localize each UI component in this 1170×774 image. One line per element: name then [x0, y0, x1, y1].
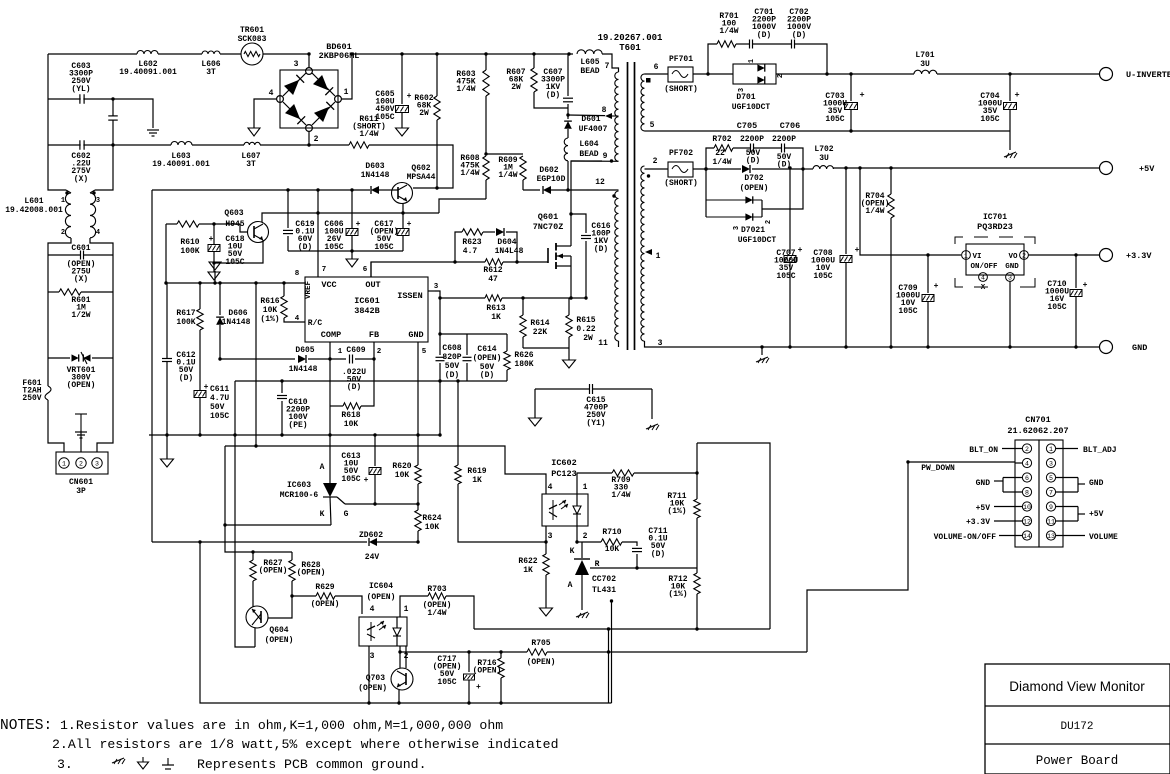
inductor L603: [171, 142, 192, 146]
svg-text:(D): (D): [746, 157, 760, 166]
svg-text:IC603: IC603: [287, 481, 311, 490]
svg-text:BEAD: BEAD: [579, 150, 598, 159]
svg-text:C706: C706: [780, 121, 800, 131]
svg-text:L701: L701: [915, 51, 934, 60]
ground: [351, 251, 353, 259]
svg-text:IC601: IC601: [354, 296, 380, 306]
svg-text:24V: 24V: [365, 553, 380, 562]
svg-text:R626: R626: [514, 351, 533, 360]
wire pin8 VREF: [167, 282, 305, 284]
svg-text:2200P: 2200P: [740, 135, 764, 144]
wire R601 to varistor: [47, 292, 49, 358]
svg-text:VOLUME-ON/OFF: VOLUME-ON/OFF: [934, 533, 997, 542]
wire gnd long line: [235, 380, 507, 382]
svg-text:(OPEN): (OPEN): [527, 658, 556, 667]
ground: [396, 128, 409, 136]
svg-text:+3.3V: +3.3V: [966, 518, 990, 527]
transformer T601 primary winding lower: [615, 191, 619, 341]
svg-text:1/2W: 1/2W: [71, 311, 90, 320]
wire C601 rails: [47, 252, 49, 292]
svg-text:UGF10DCT: UGF10DCT: [738, 236, 777, 245]
svg-text:D606: D606: [228, 309, 247, 318]
connector CN601: [56, 452, 108, 474]
svg-text:R624: R624: [422, 514, 441, 523]
wire left rails: [48, 54, 66, 190]
svg-text:U-INVERTER: U-INVERTER: [1126, 70, 1170, 80]
wire Q601 drain to pin9: [571, 161, 602, 246]
wire pin3 bottom: [645, 341, 656, 347]
svg-text:BLT_ON: BLT_ON: [969, 446, 998, 455]
svg-text:2W: 2W: [419, 109, 429, 118]
svg-text:D603: D603: [365, 162, 384, 171]
svg-text:R615: R615: [576, 316, 595, 325]
svg-text:L604: L604: [579, 140, 598, 149]
svg-text:G: G: [344, 510, 349, 519]
svg-text:1: 1: [404, 605, 409, 614]
wire Q703: [398, 690, 400, 703]
svg-text:3842B: 3842B: [354, 306, 380, 316]
svg-text:VI: VI: [972, 253, 981, 261]
wire PW_DOWN to pin4: [1015, 462, 1022, 464]
svg-text:1/4W: 1/4W: [498, 171, 517, 180]
wire bridge pin4: [254, 99, 277, 128]
svg-text:105C: 105C: [1047, 303, 1066, 312]
wire pin6 OUT: [370, 262, 372, 277]
svg-text:1/4W: 1/4W: [865, 207, 884, 216]
wire pin1 pin2: [329, 342, 331, 359]
wire R703 line to pwdown riser: [474, 628, 770, 630]
wire R705 riser: [807, 462, 908, 652]
svg-text:3T: 3T: [206, 68, 216, 77]
svg-text:2.All resistors are 1/8 watt,5: 2.All resistors are 1/8 watt,5% except w…: [52, 737, 558, 752]
svg-text:1: 1: [344, 88, 349, 97]
svg-text:180K: 180K: [514, 360, 533, 369]
svg-text:3: 3: [96, 197, 100, 205]
svg-text:3: 3: [733, 226, 741, 230]
svg-text:1K: 1K: [491, 313, 501, 322]
svg-text:3T: 3T: [246, 160, 256, 169]
svg-text:3: 3: [294, 60, 299, 69]
wire TL431 anode: [581, 575, 583, 610]
svg-text:L702: L702: [814, 145, 833, 154]
svg-text:PF701: PF701: [669, 55, 693, 64]
svg-text:ISSEN: ISSEN: [397, 291, 423, 301]
svg-text:1/4W: 1/4W: [359, 130, 378, 139]
svg-text:GND: GND: [408, 330, 423, 340]
svg-text:R703: R703: [427, 585, 446, 594]
svg-text:10K: 10K: [425, 523, 440, 532]
svg-text:1: 1: [338, 348, 343, 356]
svg-text:6: 6: [363, 266, 368, 274]
svg-text:+: +: [798, 246, 803, 255]
svg-text:105C: 105C: [898, 307, 917, 316]
svg-text:C611: C611: [210, 385, 229, 394]
svg-text:5: 5: [422, 348, 427, 356]
svg-text:CC702: CC702: [592, 575, 616, 584]
inductor L607: [244, 142, 260, 145]
ground: [761, 347, 763, 355]
wire top rail to transformer: [402, 53, 573, 55]
svg-text:Q703: Q703: [366, 674, 385, 683]
svg-text:(D): (D): [445, 371, 459, 380]
svg-text:3: 3: [1049, 461, 1053, 468]
svg-text:100K: 100K: [180, 247, 199, 256]
svg-text:Q602: Q602: [411, 164, 430, 173]
svg-text:ON/OFF: ON/OFF: [970, 263, 998, 271]
wire Q603 collector: [262, 213, 439, 222]
svg-text:8: 8: [295, 270, 300, 278]
diode pair D7021: [705, 169, 707, 217]
resistor R623 and diode D604 snubber branch: [455, 232, 462, 262]
svg-text:+: +: [859, 90, 864, 100]
wire pin8: [568, 114, 605, 117]
wire start rail: [151, 190, 153, 542]
svg-text:+5V: +5V: [1139, 164, 1155, 174]
svg-text:3.: 3.: [57, 757, 73, 772]
svg-text:C614: C614: [477, 345, 496, 354]
svg-text:7NC70Z: 7NC70Z: [533, 222, 564, 232]
svg-text:1: 1: [62, 461, 66, 468]
svg-text:1/4W: 1/4W: [611, 491, 630, 500]
svg-text:R620: R620: [392, 462, 411, 471]
wire cap bottom rail: [288, 250, 403, 252]
wire IC701 pin3 gnd: [1009, 281, 1011, 347]
svg-text:47: 47: [488, 275, 498, 284]
svg-text:4: 4: [96, 229, 100, 237]
svg-text:CN601: CN601: [69, 478, 93, 487]
svg-text:4: 4: [981, 275, 985, 282]
ground: [529, 418, 542, 426]
svg-text:GND: GND: [1132, 343, 1147, 353]
svg-text:6: 6: [654, 63, 659, 72]
svg-text:ZD602: ZD602: [359, 531, 383, 540]
svg-text:105C: 105C: [980, 115, 999, 124]
svg-text:14: 14: [1023, 533, 1031, 540]
svg-text:R/C: R/C: [308, 319, 323, 328]
wire vref rail down: [166, 283, 168, 355]
transformer T601 primary winding upper: [615, 72, 619, 161]
svg-text:(OPEN): (OPEN): [297, 569, 326, 578]
svg-text:(OPEN): (OPEN): [265, 636, 294, 645]
svg-text:+: +: [1014, 90, 1019, 100]
svg-text:(OPEN): (OPEN): [311, 600, 340, 609]
capacitor C614: [440, 333, 507, 335]
svg-text:PQ3RD23: PQ3RD23: [977, 222, 1013, 232]
svg-text:Q604: Q604: [269, 626, 288, 635]
svg-text:DU172: DU172: [1060, 721, 1093, 733]
svg-text:D701: D701: [736, 93, 755, 102]
wire loop verticals: [611, 601, 613, 703]
svg-text:NOTES:: NOTES:: [0, 718, 52, 734]
svg-text:1/4W: 1/4W: [460, 169, 479, 178]
svg-text:(OPEN): (OPEN): [358, 684, 387, 693]
svg-text:(D): (D): [546, 91, 560, 100]
svg-text:+3.3V: +3.3V: [1126, 251, 1152, 261]
svg-text:1/4W: 1/4W: [719, 27, 738, 36]
svg-text:3: 3: [370, 652, 375, 661]
svg-text:22K: 22K: [533, 328, 548, 337]
svg-text:4: 4: [370, 605, 375, 614]
svg-text:105C: 105C: [776, 272, 795, 281]
wire bridge pin1 to rail: [341, 54, 352, 99]
svg-text:VCC: VCC: [321, 280, 336, 290]
svg-text:1/4W: 1/4W: [456, 85, 475, 94]
svg-text:+: +: [934, 282, 939, 291]
svg-text:1.Resistor values are in ohm,K: 1.Resistor values are in ohm,K=1,000 ohm…: [60, 718, 503, 733]
svg-text:MPSA44: MPSA44: [407, 173, 436, 182]
svg-text:1/4W: 1/4W: [427, 609, 446, 618]
svg-text:R622: R622: [518, 557, 537, 566]
ground: [147, 129, 159, 131]
ground: [112, 758, 124, 763]
svg-text:105C: 105C: [210, 412, 229, 421]
svg-text:(D): (D): [347, 383, 361, 392]
svg-text:UF4007: UF4007: [579, 125, 608, 134]
wire TL431 ref: [590, 567, 697, 569]
ground: [214, 271, 216, 283]
svg-text:7: 7: [1049, 490, 1053, 497]
svg-text:(OPEN): (OPEN): [473, 667, 502, 676]
svg-text:R710: R710: [602, 528, 621, 537]
svg-text:2200P: 2200P: [772, 135, 796, 144]
svg-text:(OPEN): (OPEN): [740, 184, 769, 193]
svg-text:105C: 105C: [341, 475, 360, 484]
capacitor C604: [108, 115, 118, 117]
connector +5V: [1100, 162, 1113, 175]
svg-text:IC602: IC602: [551, 458, 577, 468]
svg-text:K: K: [570, 547, 575, 556]
svg-text:R613: R613: [486, 304, 505, 313]
svg-text:1: 1: [61, 197, 65, 205]
svg-text:R617: R617: [176, 309, 195, 318]
svg-text:12: 12: [595, 178, 605, 187]
svg-text:UGF10DCT: UGF10DCT: [732, 103, 771, 112]
ground: [142, 757, 144, 762]
ground: [208, 272, 220, 280]
svg-text:19.20267.001: 19.20267.001: [598, 33, 663, 43]
svg-text:13: 13: [1047, 533, 1055, 540]
svg-text:1N4L48: 1N4L48: [495, 247, 524, 256]
svg-text:D601: D601: [581, 115, 600, 124]
svg-text:R619: R619: [467, 467, 486, 476]
wire feedback loop bottom: [200, 542, 612, 703]
svg-text:R629: R629: [315, 583, 334, 592]
wire bridge pin2: [308, 131, 310, 145]
svg-text:(YL): (YL): [71, 85, 90, 94]
svg-text:C608: C608: [442, 344, 461, 353]
svg-text:(D): (D): [757, 31, 771, 40]
wire rail taps: [400, 52, 403, 55]
svg-text:VREF: VREF: [305, 281, 313, 300]
svg-text:(D): (D): [792, 31, 806, 40]
wire to U-INVERTER: [937, 73, 1099, 75]
svg-text:10K: 10K: [263, 306, 278, 315]
svg-text:MCR100-6: MCR100-6: [280, 491, 319, 500]
wire inverter rail: [776, 73, 914, 75]
svg-text:Represents PCB common ground.: Represents PCB common ground.: [197, 757, 427, 772]
svg-text:(X): (X): [74, 175, 88, 184]
svg-text:3: 3: [1008, 275, 1012, 282]
svg-text:Q603: Q603: [224, 209, 243, 218]
ground: [1009, 131, 1011, 150]
svg-text:4: 4: [269, 89, 274, 98]
wire pin7 VCC: [317, 190, 319, 277]
varistor VRT601: [72, 354, 79, 361]
svg-text:50V: 50V: [445, 362, 460, 371]
svg-text:10: 10: [1023, 504, 1031, 511]
svg-text:K: K: [320, 510, 325, 519]
svg-text:X: X: [981, 284, 986, 292]
svg-text:+: +: [1083, 281, 1088, 290]
ground: [523, 347, 569, 349]
svg-text:2: 2: [1022, 253, 1026, 260]
svg-text:C609: C609: [346, 346, 365, 355]
svg-text:1K: 1K: [523, 566, 533, 575]
svg-text:GND: GND: [976, 479, 991, 488]
svg-text:(SHORT): (SHORT): [664, 179, 698, 188]
svg-text:TR601: TR601: [240, 26, 264, 35]
svg-text:Diamond View Monitor: Diamond View Monitor: [1009, 679, 1145, 694]
capacitor C608 on ISSEN: [439, 298, 441, 355]
svg-text:BLT_ADJ: BLT_ADJ: [1083, 446, 1117, 455]
wire hot dc minus rail: [152, 189, 370, 191]
svg-text:COMP: COMP: [321, 330, 341, 340]
svg-text:3U: 3U: [920, 60, 930, 69]
svg-text:1/4W: 1/4W: [712, 158, 731, 167]
svg-text:D605: D605: [295, 346, 314, 355]
svg-text:IC604: IC604: [369, 582, 393, 591]
wire Q603 base/emitter: [214, 224, 248, 232]
svg-text:D602: D602: [539, 166, 558, 175]
wire vref to opto line: [255, 283, 257, 446]
connector U-INVERTER: [1100, 68, 1113, 81]
svg-text:8: 8: [602, 106, 607, 115]
svg-text:2: 2: [377, 348, 382, 356]
svg-text:3: 3: [548, 532, 553, 541]
svg-text:10K: 10K: [344, 420, 359, 429]
svg-text:6: 6: [1025, 475, 1029, 482]
wire C604: [112, 99, 114, 116]
svg-text:GND: GND: [1089, 479, 1104, 488]
svg-text:7: 7: [605, 62, 610, 71]
svg-text:R612: R612: [483, 266, 502, 275]
svg-text:+: +: [356, 220, 361, 229]
svg-text:105C: 105C: [825, 115, 844, 124]
svg-text:TL431: TL431: [592, 586, 616, 595]
wire opto pins: [545, 526, 547, 542]
svg-text:9: 9: [603, 152, 608, 161]
wire bridge pin3 to top rail: [308, 54, 310, 68]
wire Q601 source: [570, 266, 572, 298]
svg-text:R610: R610: [180, 238, 199, 247]
svg-text:1: 1: [656, 252, 661, 261]
svg-text:1N4148: 1N4148: [361, 171, 390, 180]
svg-text:50V: 50V: [210, 403, 225, 412]
svg-text:(OPEN): (OPEN): [67, 381, 96, 390]
svg-text:(D): (D): [179, 374, 193, 383]
svg-text:3U: 3U: [819, 154, 829, 163]
wire IC604 pins: [368, 646, 370, 703]
svg-text:4: 4: [548, 483, 553, 492]
svg-text:3P: 3P: [76, 487, 86, 496]
svg-text:2KBP06ML: 2KBP06ML: [319, 51, 360, 61]
svg-text:+: +: [364, 476, 369, 485]
svg-text:105C: 105C: [437, 678, 456, 687]
svg-text:105C: 105C: [374, 243, 393, 252]
svg-text:21.62062.207: 21.62062.207: [1007, 426, 1068, 436]
svg-text:250V: 250V: [22, 394, 41, 403]
svg-text:3: 3: [434, 283, 439, 291]
svg-text:(1%): (1%): [668, 590, 687, 599]
svg-text:19.40091.001: 19.40091.001: [152, 160, 210, 169]
svg-text:105C: 105C: [225, 258, 244, 267]
svg-text:(Y1): (Y1): [586, 419, 605, 428]
svg-text:105C: 105C: [813, 272, 832, 281]
ground: [80, 430, 82, 452]
diode D701 pair: [733, 64, 776, 84]
svg-text:PC123: PC123: [551, 469, 577, 479]
wire Q602 emitter: [402, 203, 404, 228]
svg-text:+: +: [407, 220, 412, 229]
resistor R601: [59, 289, 81, 295]
svg-text:D702: D702: [744, 174, 763, 183]
svg-text:10K: 10K: [605, 545, 620, 554]
wire pin2: [645, 168, 669, 170]
svg-text:A: A: [320, 463, 325, 472]
svg-text:(D): (D): [594, 245, 608, 254]
transformer core: [627, 62, 629, 350]
svg-text:19.42008.001: 19.42008.001: [5, 206, 63, 215]
svg-text:PW_DOWN: PW_DOWN: [921, 464, 955, 473]
wire PF701 to D701: [693, 73, 733, 75]
svg-text:C705: C705: [737, 121, 757, 131]
svg-text:L601: L601: [24, 197, 43, 206]
svg-text:VO: VO: [1008, 253, 1018, 261]
svg-text:0.22: 0.22: [576, 325, 595, 334]
svg-text:12: 12: [1023, 519, 1031, 526]
svg-text:1: 1: [964, 253, 968, 260]
ground rail under IC601: [149, 434, 440, 436]
svg-text:Power Board: Power Board: [1036, 754, 1119, 768]
svg-text:(OPEN): (OPEN): [259, 567, 288, 576]
svg-text:105C: 105C: [375, 113, 394, 122]
transformer secondary winding upper: [641, 74, 645, 131]
svg-text:2: 2: [583, 532, 588, 541]
transformer secondary winding lower: [641, 166, 645, 341]
svg-text:4: 4: [1025, 461, 1029, 468]
wire node line C603: [48, 98, 81, 100]
svg-text:4.7U: 4.7U: [210, 394, 229, 403]
svg-text:4.7: 4.7: [463, 247, 478, 256]
svg-text:(X): (X): [74, 275, 88, 284]
ground: [651, 389, 653, 419]
inductor L602: [137, 51, 158, 55]
wire GND rail: [655, 346, 1099, 348]
wire L601 bottom: [48, 238, 71, 252]
wire to L702: [803, 168, 813, 170]
svg-text:10K: 10K: [395, 471, 410, 480]
inductor L605: [577, 50, 602, 54]
svg-text:+: +: [476, 683, 481, 692]
svg-text:(OPEN): (OPEN): [473, 354, 502, 363]
svg-text:D7021: D7021: [741, 226, 765, 235]
svg-text:22: 22: [715, 149, 725, 158]
svg-text:1N4148: 1N4148: [222, 318, 251, 327]
svg-text:(OPEN): (OPEN): [367, 593, 396, 602]
ground: [166, 435, 168, 459]
wire +3.3V source: [860, 168, 928, 255]
svg-text:11: 11: [598, 339, 608, 348]
